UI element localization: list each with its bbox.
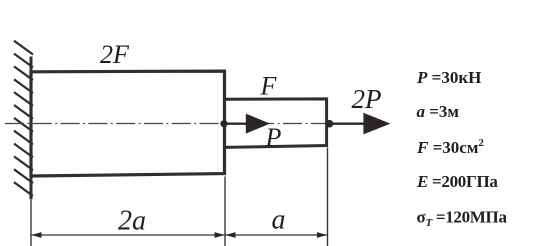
wall hatching (14, 41, 33, 196)
svg-text:a =3м: a =3м (417, 102, 460, 121)
svg-text:σТ =120МПа: σТ =120МПа (417, 207, 508, 229)
svg-text:a: a (272, 205, 286, 236)
svg-text:E =200ГПа: E =200ГПа (416, 172, 498, 191)
extension line left (30, 199, 32, 246)
force P arrow (224, 122, 250, 124)
centerline (dash-dot axis) (5, 123, 330, 125)
dimension line (31, 234, 328, 236)
wall (fixed support) line (30, 57, 33, 200)
end node dot (326, 120, 334, 128)
svg-text:2a: 2a (118, 206, 146, 237)
svg-text:2F: 2F (100, 40, 130, 69)
extension line right (327, 148, 329, 246)
dim arrows at middle extension (215, 232, 225, 238)
svg-text:P: P (265, 123, 282, 152)
svg-text:2P: 2P (352, 84, 382, 114)
dim arrow right (tip at right extension) (317, 232, 327, 238)
bar segment 2 (area F) (225, 99, 327, 147)
dim arrow left (tip at left extension) (32, 232, 42, 238)
extension line middle (224, 177, 226, 246)
force 2P arrow (330, 122, 371, 124)
bar segment 1 (area 2F) (31, 71, 225, 176)
svg-text:F: F (260, 72, 278, 101)
svg-text:F =30см2: F =30см2 (416, 137, 484, 157)
junction node dot (220, 120, 227, 127)
svg-text:P =30кН: P =30кН (416, 68, 481, 87)
